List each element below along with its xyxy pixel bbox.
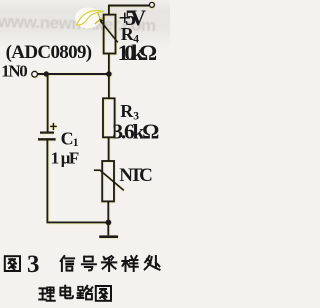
svg-text:1: 1 — [73, 137, 79, 149]
caption line 1: 图 3 信号采样处 — [5, 251, 160, 278]
watermark www.newmaker.com — [0, 12, 156, 35]
caption char 号 — [82, 257, 96, 271]
svg-text:R: R — [120, 101, 134, 121]
caption char 样 — [122, 256, 137, 271]
wire R4 top lead — [108, 5, 110, 15]
caption char 电 — [60, 286, 73, 299]
wire R4 bottom lead — [108, 54, 110, 75]
watermark swoosh logo — [75, 8, 105, 29]
wire ground stub — [107, 222, 109, 235]
wire top +5V rail — [109, 5, 149, 7]
node junction dot left — [44, 71, 49, 76]
wire left branch lower — [46, 141, 48, 223]
node junction dot right — [106, 71, 112, 77]
wire left branch upper — [47, 74, 49, 132]
caption char 路 — [77, 286, 92, 300]
resistor R4 body — [104, 15, 116, 54]
svg-text:3: 3 — [27, 251, 40, 278]
svg-text:3.6kΩ: 3.6kΩ — [112, 120, 159, 144]
caption char 理 — [39, 287, 54, 300]
capacitor C1 bottom plate — [38, 138, 56, 140]
caption char 图 — [5, 256, 20, 271]
wire R3 top lead — [108, 74, 110, 98]
thermistor NTC body — [102, 161, 114, 201]
caption char 信 — [61, 256, 74, 271]
wire bottom rail — [47, 221, 109, 223]
svg-text:(ADC0809): (ADC0809) — [6, 42, 93, 63]
caption char 图 — [96, 286, 111, 301]
IN0 terminal circle — [32, 71, 38, 77]
caption line 2: 理电路图 — [39, 286, 111, 301]
svg-text:1 μF: 1 μF — [51, 148, 80, 167]
wire NTC bottom lead — [107, 201, 109, 222]
caption char 处 — [145, 256, 160, 270]
resistor R3 body — [103, 98, 115, 137]
+5V terminal circle — [149, 2, 154, 7]
svg-text:C: C — [61, 128, 74, 148]
svg-text:10kΩ: 10kΩ — [118, 40, 158, 65]
node junction dot bottom — [106, 220, 112, 226]
NTC diagonal with foot — [94, 170, 124, 190]
R4 adjustable diagonal — [100, 21, 118, 43]
capacitor C1 plus sign — [50, 123, 57, 130]
ground bar — [99, 235, 118, 238]
svg-text:NTC: NTC — [119, 165, 153, 186]
wire IN0 rail — [38, 73, 109, 75]
scan background — [0, 0, 170, 308]
caption char 采 — [102, 256, 116, 271]
wire R3 bottom lead — [108, 137, 110, 161]
capacitor C1 top plate — [40, 132, 54, 134]
svg-text:1N0: 1N0 — [1, 62, 28, 81]
R4 arrowhead — [99, 19, 103, 23]
